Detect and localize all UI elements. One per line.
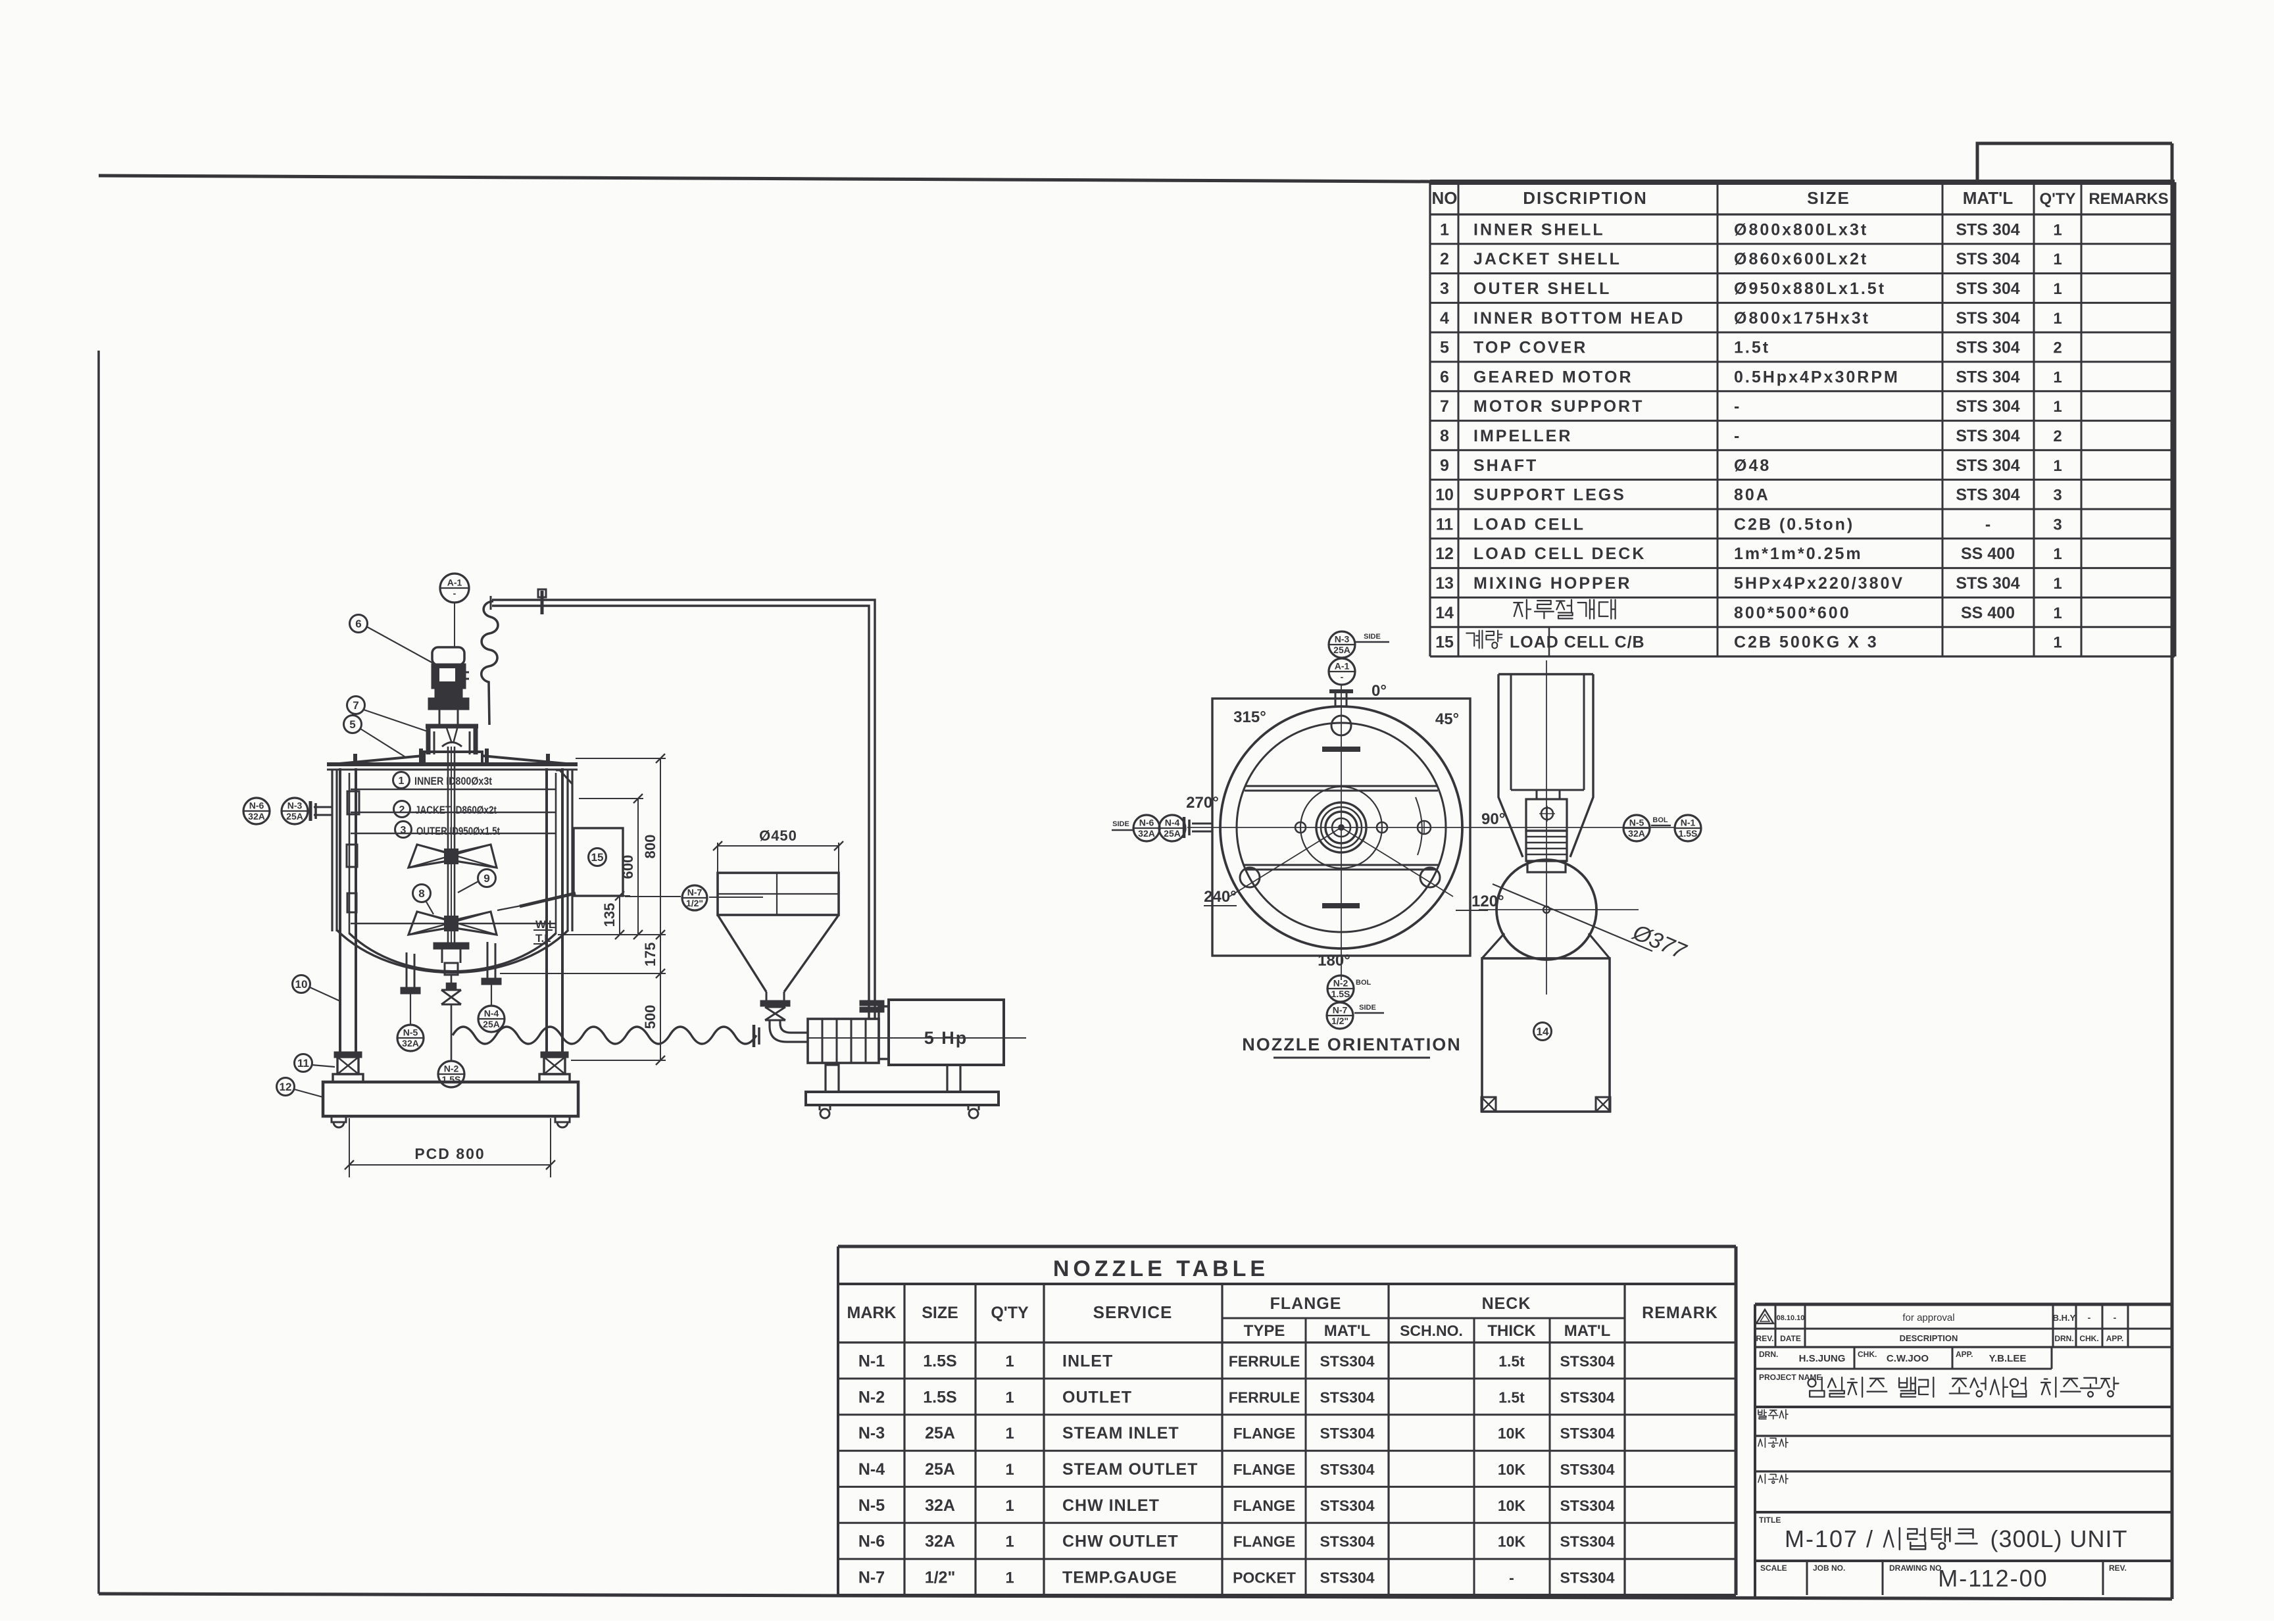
svg-text:-: - [1734,397,1741,416]
svg-text:DATE: DATE [1780,1334,1801,1343]
svg-text:FLANGE: FLANGE [1270,1294,1342,1313]
svg-text:500: 500 [642,1005,658,1029]
svg-text:STS304: STS304 [1320,1389,1374,1406]
svg-text:N-4: N-4 [484,1008,499,1019]
svg-text:8: 8 [1440,427,1449,445]
svg-text:1: 1 [2053,368,2062,386]
svg-text:N-6: N-6 [249,800,264,811]
svg-text:9: 9 [483,872,489,885]
svg-text:25A: 25A [1333,645,1350,655]
svg-text:25A: 25A [286,811,303,822]
svg-text:LOAD CELL DECK: LOAD CELL DECK [1473,545,1646,563]
svg-text:REMARK: REMARK [1642,1304,1718,1322]
svg-text:M-112-00: M-112-00 [1938,1565,2048,1592]
svg-text:GEARED MOTOR: GEARED MOTOR [1473,368,1633,386]
svg-text:SS 400: SS 400 [1961,604,2015,622]
svg-text:SS 400: SS 400 [1961,545,2015,563]
svg-text:0°: 0° [1372,682,1387,700]
svg-text:STS 304: STS 304 [1956,220,2019,239]
svg-text:5 Hp: 5 Hp [924,1028,968,1048]
svg-text:5: 5 [1440,339,1449,357]
svg-text:N-1: N-1 [1681,818,1696,828]
svg-text:3: 3 [2053,487,2062,504]
svg-text:175: 175 [642,943,658,967]
svg-text:10K: 10K [1498,1461,1526,1478]
svg-text:25A: 25A [483,1019,500,1029]
svg-text:T.L: T.L [535,932,551,945]
svg-text:STS304: STS304 [1320,1425,1374,1442]
svg-text:BOL: BOL [1652,816,1668,824]
svg-text:1.5S: 1.5S [1331,989,1350,999]
svg-text:1: 1 [2053,310,2062,328]
svg-text:14: 14 [1435,604,1454,622]
svg-text:STS 304: STS 304 [1956,574,2019,593]
svg-text:10: 10 [295,978,308,991]
svg-text:SIZE: SIZE [1807,188,1850,208]
svg-text:STS304: STS304 [1560,1497,1614,1514]
svg-text:1: 1 [1005,1389,1014,1406]
svg-text:1.5S: 1.5S [923,1388,956,1406]
svg-text:11: 11 [1436,515,1454,533]
svg-text:INNER SHELL: INNER SHELL [1473,220,1605,239]
svg-text:2: 2 [1440,250,1449,268]
svg-text:JACKET ID860Øx2t: JACKET ID860Øx2t [415,804,497,816]
svg-text:N-3: N-3 [1335,634,1350,645]
svg-text:STS 304: STS 304 [1956,280,2019,298]
svg-text:INNER BOTTOM HEAD: INNER BOTTOM HEAD [1473,309,1685,328]
svg-text:H.S.JUNG: H.S.JUNG [1799,1353,1846,1364]
svg-text:2: 2 [2053,428,2062,445]
svg-text:Q'TY: Q'TY [2039,190,2075,208]
svg-text:A-1: A-1 [1335,661,1350,672]
svg-text:1: 1 [2053,634,2062,652]
svg-text:3: 3 [401,825,407,836]
svg-text:32A: 32A [925,1533,955,1551]
svg-text:9: 9 [1440,456,1449,475]
svg-text:1: 1 [399,775,405,787]
svg-text:CHW INLET: CHW INLET [1062,1496,1160,1515]
svg-text:STS304: STS304 [1560,1425,1614,1442]
svg-text:12: 12 [280,1081,292,1093]
svg-text:STS 304: STS 304 [1956,250,2019,268]
svg-text:90°: 90° [1481,810,1505,828]
svg-text:NOZZLE ORIENTATION: NOZZLE ORIENTATION [1242,1035,1461,1054]
svg-text:STS304: STS304 [1560,1389,1614,1406]
svg-text:FERRULE: FERRULE [1229,1352,1300,1369]
svg-text:SUPPORT LEGS: SUPPORT LEGS [1473,486,1626,504]
svg-text:C.W.JOO: C.W.JOO [1887,1353,1929,1364]
svg-text:12: 12 [1435,545,1454,563]
svg-text:IMPELLER: IMPELLER [1473,427,1572,445]
svg-text:DRN.: DRN. [1759,1350,1778,1359]
svg-text:32A: 32A [925,1496,955,1515]
svg-text:Ø48: Ø48 [1734,456,1771,475]
svg-text:1m*1m*0.25m: 1m*1m*0.25m [1734,545,1863,563]
svg-text:BOL: BOL [1356,979,1372,987]
svg-text:10K: 10K [1498,1425,1526,1442]
svg-text:REV.: REV. [1756,1334,1774,1343]
svg-text:MARK: MARK [847,1304,897,1322]
svg-text:240°: 240° [1204,888,1237,906]
svg-text:N-6: N-6 [858,1533,885,1551]
svg-text:N-3: N-3 [858,1424,885,1442]
svg-text:0.5Hpx4Px30RPM: 0.5Hpx4Px30RPM [1734,368,1900,386]
svg-text:13: 13 [1435,574,1454,593]
svg-text:B.H.Y: B.H.Y [2053,1313,2076,1323]
svg-text:STS 304: STS 304 [1956,427,2019,445]
svg-text:N-4: N-4 [1165,818,1180,828]
svg-text:LOAD CELL: LOAD CELL [1473,515,1585,533]
svg-text:5: 5 [349,718,355,731]
svg-text:TYPE: TYPE [1244,1322,1285,1340]
svg-text:STS 304: STS 304 [1956,456,2019,475]
svg-text:1.5S: 1.5S [923,1352,956,1370]
svg-text:1: 1 [2053,280,2062,298]
svg-text:1.5t: 1.5t [1498,1389,1525,1406]
svg-text:25A: 25A [925,1460,955,1479]
svg-text:DISCRIPTION: DISCRIPTION [1523,188,1648,208]
svg-text:INNER ID800Øx3t: INNER ID800Øx3t [414,775,492,787]
svg-text:SCALE: SCALE [1760,1563,1787,1573]
svg-text:STS304: STS304 [1320,1533,1374,1550]
svg-text:JACKET SHELL: JACKET SHELL [1473,250,1621,268]
svg-text:MAT'L: MAT'L [1564,1322,1611,1340]
svg-text:MAT'L: MAT'L [1324,1322,1371,1340]
svg-text:1: 1 [2053,575,2062,593]
svg-text:800*500*600: 800*500*600 [1734,604,1851,622]
svg-text:LOAD CELL C/B: LOAD CELL C/B [1510,633,1645,652]
svg-text:4: 4 [1440,309,1449,328]
svg-text:OUTER ID950Øx1.5t: OUTER ID950Øx1.5t [416,825,500,837]
svg-text:APP.: APP. [2106,1334,2123,1343]
svg-text:CHW OUTLET: CHW OUTLET [1062,1533,1179,1551]
svg-text:270°: 270° [1186,794,1219,812]
svg-text:6: 6 [1440,368,1449,386]
svg-text:MAT'L: MAT'L [1963,188,2014,208]
svg-text:N-5: N-5 [403,1027,418,1038]
svg-text:Ø800x800Lx3t: Ø800x800Lx3t [1734,220,1868,239]
svg-text:7: 7 [353,699,358,712]
svg-text:15: 15 [591,851,604,864]
svg-text:TOP COVER: TOP COVER [1473,339,1587,357]
svg-text:SHAFT: SHAFT [1473,456,1538,475]
svg-text:N-1: N-1 [858,1352,885,1370]
svg-text:N-5: N-5 [1629,818,1644,828]
svg-text:STS304: STS304 [1320,1569,1374,1587]
svg-text:FLANGE: FLANGE [1233,1461,1296,1478]
svg-text:JOB NO.: JOB NO. [1813,1563,1845,1573]
svg-text:TEMP.GAUGE: TEMP.GAUGE [1062,1569,1177,1587]
svg-text:N-2: N-2 [444,1064,459,1074]
svg-text:1: 1 [2053,221,2062,239]
svg-text:CHK.: CHK. [2079,1334,2098,1343]
svg-text:DESCRIPTION: DESCRIPTION [1900,1333,1958,1343]
svg-text:1: 1 [1005,1569,1014,1587]
svg-text:STS304: STS304 [1560,1352,1614,1369]
svg-text:A-1: A-1 [447,578,462,588]
svg-text:32A: 32A [402,1038,419,1048]
svg-text:1: 1 [1005,1352,1014,1370]
svg-text:1: 1 [2053,457,2062,475]
svg-text:800: 800 [642,835,658,859]
svg-text:1/2": 1/2" [925,1569,956,1587]
svg-text:OUTLET: OUTLET [1062,1388,1132,1406]
svg-text:NECK: NECK [1482,1294,1531,1313]
svg-text:1: 1 [1005,1497,1014,1515]
svg-text:N-6: N-6 [1139,818,1154,828]
svg-text:DRAWING NO: DRAWING NO [1889,1563,1941,1573]
svg-text:10: 10 [1435,486,1454,504]
svg-text:STS 304: STS 304 [1956,368,2019,386]
svg-text:180°: 180° [1318,952,1350,970]
svg-text:-: - [1985,515,1990,533]
svg-text:1.5S: 1.5S [442,1074,461,1085]
svg-text:-: - [453,588,457,599]
svg-text:N-7: N-7 [858,1569,885,1587]
svg-text:315°: 315° [1233,708,1266,726]
svg-text:N-7: N-7 [1333,1005,1348,1016]
svg-text:Ø950x880Lx1.5t: Ø950x880Lx1.5t [1734,280,1886,298]
svg-text:7: 7 [1440,397,1449,416]
svg-text:1: 1 [1005,1425,1014,1442]
svg-text:STS304: STS304 [1320,1461,1374,1478]
svg-text:32A: 32A [248,811,265,822]
svg-text:32A: 32A [1628,828,1645,839]
svg-text:25A: 25A [1164,828,1181,839]
svg-text:SIZE: SIZE [922,1304,958,1322]
svg-text:STS304: STS304 [1320,1497,1374,1514]
svg-text:SERVICE: SERVICE [1093,1302,1173,1322]
svg-text:N-2: N-2 [1333,978,1348,989]
svg-text:STS 304: STS 304 [1956,486,2019,504]
svg-text:2: 2 [399,804,405,816]
svg-text:STS 304: STS 304 [1956,397,2019,416]
svg-text:10K: 10K [1498,1533,1526,1550]
svg-text:STS 304: STS 304 [1956,339,2019,357]
svg-text:1: 1 [2053,604,2062,622]
svg-text:CHK.: CHK. [1858,1350,1877,1359]
svg-text:6: 6 [355,618,361,630]
svg-text:25A: 25A [925,1424,955,1442]
svg-text:Ø450: Ø450 [759,827,797,844]
svg-text:1: 1 [2053,398,2062,416]
svg-text:INLET: INLET [1062,1352,1113,1370]
svg-text:1: 1 [2053,251,2062,268]
svg-text:STS304: STS304 [1560,1533,1614,1550]
svg-text:NOZZLE TABLE: NOZZLE TABLE [1053,1256,1269,1281]
svg-text:OUTER SHELL: OUTER SHELL [1473,280,1611,298]
svg-text:1.5t: 1.5t [1498,1352,1525,1369]
svg-text:-: - [1734,427,1741,445]
svg-text:STEAM INLET: STEAM INLET [1062,1424,1179,1442]
svg-text:1.5t: 1.5t [1734,339,1770,357]
svg-text:11: 11 [297,1057,309,1070]
svg-text:135: 135 [601,903,618,927]
svg-text:FLANGE: FLANGE [1233,1497,1296,1514]
svg-text:APP.: APP. [1956,1350,1973,1359]
svg-text:3: 3 [2053,516,2062,533]
svg-text:1: 1 [1005,1461,1014,1479]
svg-text:SIDE: SIDE [1364,633,1381,641]
svg-text:08.10.10: 08.10.10 [1777,1314,1805,1322]
svg-text:1: 1 [1005,1533,1014,1551]
svg-text:1/2": 1/2" [1331,1016,1348,1026]
svg-text:C2B (0.5ton): C2B (0.5ton) [1734,515,1854,533]
svg-text:REV.: REV. [2109,1563,2127,1573]
svg-text:SIDE: SIDE [1359,1004,1376,1012]
svg-text:SIDE: SIDE [1112,820,1129,828]
svg-text:-: - [1509,1569,1514,1587]
svg-text:POCKET: POCKET [1233,1569,1296,1587]
svg-text:DRN.: DRN. [2054,1334,2073,1343]
svg-text:-: - [2088,1312,2091,1323]
svg-text:STS304: STS304 [1560,1461,1614,1478]
svg-text:NO: NO [1432,188,1458,208]
svg-text:1.5S: 1.5S [1679,828,1698,839]
svg-text:PCD 800: PCD 800 [414,1145,485,1162]
svg-text:FLANGE: FLANGE [1233,1533,1296,1550]
svg-text:STEAM OUTLET: STEAM OUTLET [1062,1460,1198,1479]
svg-text:Y.B.LEE: Y.B.LEE [1989,1353,2027,1364]
svg-text:STS 304: STS 304 [1956,309,2019,328]
svg-text:N-5: N-5 [858,1496,885,1515]
svg-text:MIXING HOPPER: MIXING HOPPER [1473,574,1631,593]
svg-text:STS304: STS304 [1320,1352,1374,1369]
svg-text:N-3: N-3 [287,800,303,811]
svg-text:N-7: N-7 [687,887,703,898]
svg-text:2: 2 [2053,339,2062,357]
svg-text:3: 3 [1440,280,1449,298]
svg-text:600: 600 [620,855,636,879]
svg-text:5HPx4Px220/380V: 5HPx4Px220/380V [1734,574,1904,593]
svg-text:-: - [1341,672,1344,682]
svg-text:W.L: W.L [535,918,555,931]
svg-text:80A: 80A [1734,486,1770,504]
svg-text:Ø860x600Lx2t: Ø860x600Lx2t [1734,250,1868,268]
svg-text:(300L) UNIT: (300L) UNIT [1990,1525,2127,1552]
svg-text:THICK: THICK [1487,1322,1536,1340]
svg-text:for approval: for approval [1902,1312,1954,1323]
svg-text:N-4: N-4 [858,1460,885,1479]
svg-text:14: 14 [1537,1025,1549,1038]
svg-text:MOTOR SUPPORT: MOTOR SUPPORT [1473,397,1644,416]
svg-text:SCH.NO.: SCH.NO. [1400,1322,1463,1339]
svg-text:1/2": 1/2" [686,898,703,908]
svg-text:8: 8 [418,887,424,900]
svg-text:32A: 32A [1138,828,1155,839]
svg-text:Q'TY: Q'TY [991,1304,1029,1322]
svg-text:N-2: N-2 [858,1388,885,1406]
svg-text:1: 1 [1440,220,1449,239]
svg-text:15: 15 [1435,633,1454,652]
svg-text:FERRULE: FERRULE [1229,1389,1300,1406]
svg-text:Ø800x175Hx3t: Ø800x175Hx3t [1734,309,1870,328]
svg-text:10K: 10K [1498,1497,1526,1514]
svg-text:1: 1 [2053,545,2062,563]
svg-text:C2B 500KG X 3: C2B 500KG X 3 [1734,633,1879,652]
svg-text:PROJECT NAME: PROJECT NAME [1759,1373,1821,1382]
svg-text:FLANGE: FLANGE [1233,1425,1296,1442]
svg-text:STS304: STS304 [1560,1569,1614,1587]
svg-text:M-107 /: M-107 / [1785,1525,1874,1552]
svg-text:45°: 45° [1435,710,1459,728]
svg-text:-: - [2113,1312,2117,1323]
svg-text:TITLE: TITLE [1759,1515,1781,1525]
svg-text:REMARKS: REMARKS [2089,190,2168,208]
